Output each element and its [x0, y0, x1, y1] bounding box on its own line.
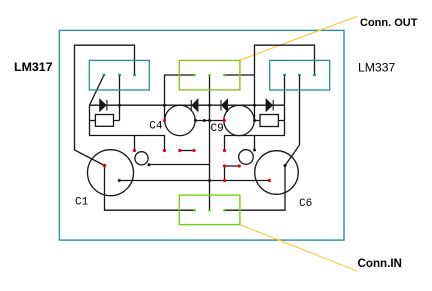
svg-text:C9: C9: [211, 123, 224, 135]
svg-text:Conn.IN: Conn.IN: [358, 257, 402, 270]
svg-text:LM337: LM337: [358, 60, 395, 74]
svg-text:C6: C6: [299, 198, 312, 210]
svg-text:LM317: LM317: [14, 60, 53, 74]
svg-text:Conn. OUT: Conn. OUT: [360, 17, 418, 29]
svg-text:C4: C4: [149, 121, 163, 133]
svg-text:C1: C1: [75, 197, 89, 209]
